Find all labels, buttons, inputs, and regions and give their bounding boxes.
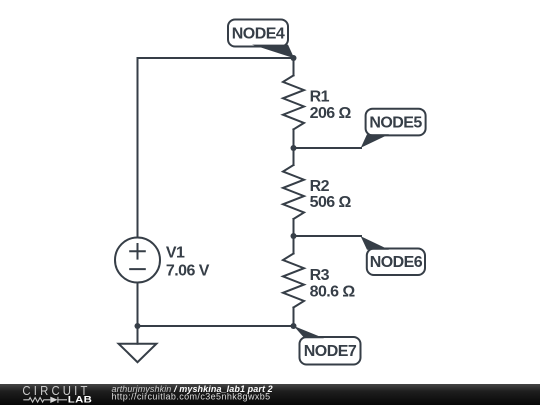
svg-text:80.6 Ω: 80.6 Ω xyxy=(310,284,356,301)
svg-text:NODE7: NODE7 xyxy=(304,343,357,360)
svg-text:506 Ω: 506 Ω xyxy=(310,194,352,211)
svg-text:V1: V1 xyxy=(166,245,185,262)
svg-text:R2: R2 xyxy=(310,178,330,195)
svg-text:R1: R1 xyxy=(310,89,330,106)
svg-text:http://circuitlab.com/c3e5nhk8: http://circuitlab.com/c3e5nhk8gwxb5 xyxy=(112,392,271,402)
svg-text:NODE6: NODE6 xyxy=(370,254,423,271)
svg-text:LAB: LAB xyxy=(68,395,93,405)
svg-text:NODE4: NODE4 xyxy=(232,26,285,43)
svg-text:206 Ω: 206 Ω xyxy=(310,105,352,122)
svg-text:7.06 V: 7.06 V xyxy=(166,262,210,279)
svg-text:R3: R3 xyxy=(310,267,330,284)
svg-text:NODE5: NODE5 xyxy=(369,115,422,132)
